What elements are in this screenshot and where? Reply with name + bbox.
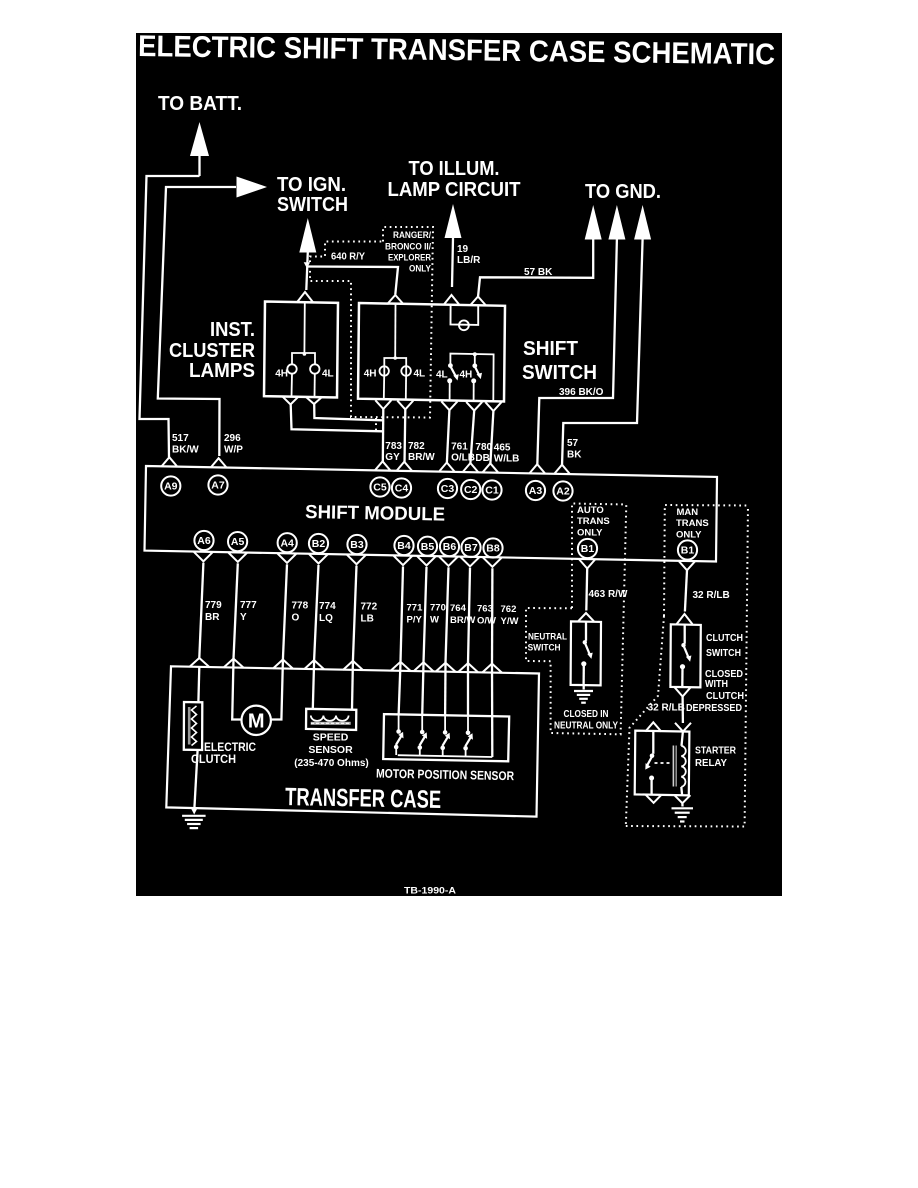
wire clutch switch to starter relay [681,697,684,724]
neutral switch box [571,621,601,685]
svg-text:A7: A7 [211,480,225,492]
wedge into starter relay (coil) [675,723,691,732]
svg-text:32 R/LB: 32 R/LB [648,703,685,714]
svg-text:BR/W: BR/W [408,452,435,463]
wire 774 LG (B2) [314,565,318,660]
svg-text:BK/W: BK/W [172,445,199,456]
module terminal C5 [375,461,391,470]
wire 763 O/W (B7) [468,568,470,663]
svg-text:SWITCH: SWITCH [522,362,597,384]
svg-text:A5: A5 [231,536,245,548]
wire to module C4 [403,409,406,463]
starter relay contact [652,731,654,753]
wire to module C3 [447,410,450,464]
wire B7 into position sensor switch 4 [467,664,469,717]
svg-text:C5: C5 [373,482,387,494]
junction arrowhead at case ground [190,807,198,814]
svg-text:TO GND.: TO GND. [585,181,661,203]
svg-text:771: 771 [407,602,424,613]
svg-text:NEUTRAL ONLY: NEUTRAL ONLY [554,721,618,732]
position sensor switch 2 [421,716,423,731]
electric clutch component [184,702,203,750]
svg-text:B2: B2 [312,538,326,550]
svg-text:LAMP CIRCUIT: LAMP CIRCUIT [388,179,521,201]
wedge into box2 (19 LB/R) [444,295,460,305]
wedge into box2 (640 R/Y) [387,295,403,304]
svg-text:MOTOR POSITION SENSOR: MOTOR POSITION SENSOR [376,767,514,784]
svg-text:P/Y: P/Y [407,614,423,625]
wedge below module B1 auto [579,559,595,568]
svg-text:C3: C3 [441,483,455,495]
svg-text:777: 777 [240,600,257,611]
wire A6 into electric clutch [197,667,200,702]
svg-text:517: 517 [172,433,189,444]
svg-text:LB: LB [361,614,374,625]
wire 762 Y/W (B8) [491,568,494,663]
svg-text:779: 779 [205,600,222,611]
module terminal B7 [461,538,480,557]
wire A4 to motor [271,661,283,720]
wire B2 to speed sensor [313,661,314,709]
wire 517 BK/W battery feed down left side [140,176,200,457]
svg-text:TO IGN.: TO IGN. [277,174,346,196]
wire from box1 4L lamp to module C5 [314,404,383,420]
svg-text:LB/R: LB/R [457,255,481,266]
svg-text:O/LB: O/LB [451,453,475,464]
module terminal C4 [396,462,412,471]
svg-text:761: 761 [451,442,468,453]
wire B4 into position sensor switch 1 [399,663,401,716]
starter relay coil [681,746,685,787]
wedge into case A4 [273,660,293,669]
module terminal A6 [194,531,213,550]
wedge below box1 lamp 4H [283,397,299,405]
wedge below starter relay contact [646,795,662,803]
illumination lamp symbol [459,320,469,330]
module terminal A2 [554,465,570,474]
module terminal B5 [418,537,437,556]
junction arrowhead on lamp feed [304,262,310,268]
selector switch frame [450,354,493,401]
ground (starter relay) [681,803,683,806]
svg-text:A6: A6 [197,535,211,547]
svg-text:TRANS: TRANS [676,518,709,529]
module terminal B1 (man) [678,540,697,559]
wire 778 O (A4) [283,564,287,659]
module terminal B1 (auto) [578,539,597,558]
wire 32 R/LB (clutch switch) [685,570,687,611]
svg-text:57 BK: 57 BK [524,267,553,278]
svg-text:W/LB: W/LB [494,454,520,465]
svg-text:4H: 4H [460,370,473,381]
wire 764 BR/W (B6) [446,567,449,662]
wire 296 W/P ignition feed [158,187,236,456]
wire to module C5 [382,409,385,463]
wedge below box2 lamp 4L wire (C4) [397,401,413,410]
wedge into starter relay (contact feed) [645,722,661,731]
lamp box1 output wires [291,374,294,397]
wedge into box2 (57 BK) [470,297,486,306]
svg-text:SWITCH: SWITCH [528,643,561,654]
module terminal C2 [462,463,478,472]
node TO IGN SWITCH arrow (lamps feed) [299,218,316,253]
svg-text:W: W [430,615,439,626]
wedge into case A5 [224,659,244,668]
illumination lamp sub-box [451,305,479,325]
module terminal A7 [211,458,227,467]
wedge into clutch switch [677,614,693,624]
svg-text:SHIFT: SHIFT [523,338,578,360]
wedge below B7 [461,557,480,566]
svg-text:A4: A4 [280,537,294,549]
svg-text:640 R/Y: 640 R/Y [331,252,365,263]
svg-text:BRONCO II/: BRONCO II/ [385,242,431,253]
wedge below B4 [394,556,413,565]
transfer case box [166,666,539,816]
svg-text:4L: 4L [414,369,426,380]
clutch switch contacts [684,625,686,644]
wedge below box2 4H switch (C2) [466,402,482,411]
wire 57 BK to shift switch [478,239,593,297]
dotted MAN TRANS ONLY enclosure sides [626,616,664,826]
wire 777 Y (A5) [234,563,238,658]
svg-text:TO BATT.: TO BATT. [158,93,242,115]
electric clutch winding [192,706,197,746]
svg-text:770: 770 [430,603,446,614]
dotted AUTO TRANS ONLY box [572,504,626,609]
lamp box 1 [264,302,338,398]
motor position sensor internal bus [398,755,493,757]
module terminal A3 [529,464,545,473]
wedge below A6 [194,552,213,561]
wedge into case A6 [189,658,209,667]
svg-text:774: 774 [319,601,336,612]
svg-text:296: 296 [224,433,241,444]
speed sensor box [306,709,356,730]
svg-text:B1: B1 [681,545,695,557]
box2 lamp feed [394,305,396,358]
svg-text:B3: B3 [350,539,364,551]
wedge into case B7 [458,663,478,672]
svg-text:M: M [248,711,265,733]
svg-text:4L: 4L [322,369,334,380]
wedge into neutral switch [578,613,594,621]
position sensor switch 1 [398,716,400,731]
svg-text:19: 19 [457,244,469,255]
svg-text:DB: DB [475,453,489,464]
svg-text:CLUSTER: CLUSTER [169,340,255,362]
svg-text:WITH: WITH [705,679,728,690]
svg-text:A9: A9 [164,481,178,493]
module terminal B4 [394,536,413,555]
wedge below box1 lamp 4L [306,397,322,404]
svg-text:CLUTCH: CLUTCH [706,632,743,644]
wire B8 into position sensor common [491,665,494,758]
svg-text:772: 772 [361,602,378,613]
svg-text:EXPLORER: EXPLORER [388,253,431,264]
switch 4H branch [474,354,476,364]
svg-text:A3: A3 [529,485,543,497]
svg-text:465: 465 [494,443,511,454]
svg-text:A2: A2 [556,486,570,498]
wedge into case B8 [482,664,502,673]
svg-text:B8: B8 [486,543,500,555]
position sensor switch 3 [444,716,446,731]
svg-text:CLOSED IN: CLOSED IN [564,709,609,720]
dotted MAN TRANS ONLY box [664,505,748,616]
wire 779 BR (A6) [199,563,203,658]
connector wedge into lamp box 1 [297,292,313,302]
wedge into case B6 [436,663,456,672]
wedge into case B5 [414,662,434,671]
svg-text:GY: GY [385,452,400,463]
module terminal A9 [161,457,177,466]
wire 770 W (B5) [424,567,427,662]
svg-text:BR: BR [205,612,220,623]
wedge into case B3 [343,661,363,670]
ground arrow 3 [634,205,651,240]
wedge below module B1 man [679,561,695,570]
clutch switch box [670,624,700,687]
wedge below B8 [483,557,502,566]
wire 640 R/Y branch to lamp box 2 [307,267,398,295]
lamp 4H (box1) [287,364,296,373]
position sensor switch 4 [467,717,469,732]
module terminal B6 [440,537,459,556]
svg-text:764: 764 [450,603,467,614]
svg-text:SPEED: SPEED [313,732,349,744]
wedge below B5 [417,556,436,565]
arrow to ignition switch (right) [237,177,268,198]
module terminal B3 [347,535,366,554]
wedge below B2 [309,554,328,563]
wire 771 P/Y (B4) [401,567,404,662]
svg-text:O: O [292,613,300,624]
svg-text:4H: 4H [275,369,288,380]
svg-text:SHIFT MODULE: SHIFT MODULE [305,502,445,526]
starter relay coil core [673,746,675,787]
wire coil bottom [680,787,683,795]
wedge below starter relay coil [674,795,690,803]
wire electric clutch to ground [194,750,197,810]
wire from box1 4H lamp to module C5 [291,405,383,432]
wedge below box2 common (C1) [485,402,501,411]
svg-text:ONLY: ONLY [409,264,432,275]
svg-text:ONLY: ONLY [577,528,603,539]
module terminal B8 [483,538,502,557]
motor M [242,706,271,735]
speed sensor core bar [311,722,351,725]
wedge below B6 [439,557,458,566]
svg-text:763: 763 [477,603,493,614]
svg-text:762: 762 [501,604,517,615]
svg-text:AUTO: AUTO [577,505,604,516]
svg-text:B6: B6 [443,541,457,553]
svg-text:ONLY: ONLY [676,530,702,541]
wire 396 BK/O from shift switch to module A3 [537,239,617,465]
svg-text:Y: Y [240,612,247,623]
wedge below A5 [228,553,247,562]
black scan background panel [136,33,782,896]
svg-text:W/P: W/P [224,445,243,456]
svg-text:DEPRESSED: DEPRESSED [686,703,742,714]
svg-text:780: 780 [475,442,492,453]
module terminal B2 [309,534,328,553]
svg-text:TB-1990-A: TB-1990-A [404,886,456,897]
svg-text:B7: B7 [464,542,478,554]
shift switch box 2 [358,303,505,402]
module terminal C1 [482,463,498,472]
wire to module C2 [470,411,474,465]
ground arrow 1 [585,205,602,240]
svg-text:LAMPS: LAMPS [189,360,255,382]
svg-text:B5: B5 [421,541,435,553]
svg-text:O/W: O/W [477,615,496,626]
svg-text:783: 783 [385,441,402,452]
svg-text:4L: 4L [436,370,448,381]
lamp 4L (box1) [310,364,319,373]
svg-text:396 BK/O: 396 BK/O [559,387,604,398]
module terminal A4 [278,533,297,552]
svg-text:STARTER: STARTER [695,745,736,757]
wedge below B3 [347,555,366,564]
lamp 4L (box2) [401,366,411,376]
svg-text:BK: BK [567,450,582,461]
svg-text:LQ: LQ [319,613,333,624]
starter relay box [635,731,690,796]
wedge below A4 [278,554,297,563]
svg-text:C2: C2 [464,484,478,496]
dotted outline RANGER/BRONCO II/EXPLORER ONLY region [310,227,433,418]
wire A5 to motor [232,659,241,719]
module terminal A5 [228,532,247,551]
wedge into case B4 [391,662,411,671]
svg-text:BR/W: BR/W [450,615,475,626]
module terminal C3 [439,463,455,472]
svg-text:RELAY: RELAY [695,757,727,769]
box2 lamp output wires [383,376,385,400]
wire B5 into position sensor switch 2 [422,663,423,716]
ground arrow 2 [608,205,625,240]
svg-text:MAN: MAN [677,507,699,518]
wedge below box2 4L switch (C3) [441,401,457,410]
svg-text:57: 57 [567,438,579,449]
svg-text:TRANS: TRANS [577,516,610,527]
wire 772 LB (B3) [353,566,357,661]
svg-text:B4: B4 [397,540,411,552]
wire B6 into position sensor switch 3 [444,664,447,717]
svg-text:C4: C4 [395,483,409,495]
svg-text:TO ILLUM.: TO ILLUM. [409,158,500,180]
svg-text:778: 778 [292,601,309,612]
svg-text:INST.: INST. [210,319,255,341]
ground (transfer case) [182,815,206,817]
svg-text:463 R/W: 463 R/W [589,589,628,600]
neutral switch contacts [585,622,587,641]
svg-text:SWITCH: SWITCH [277,194,348,216]
wedge below clutch switch [675,687,691,696]
starter relay mechanical link (dashed) [655,762,672,764]
wedge into case B2 [304,660,324,669]
svg-text:32 R/LB: 32 R/LB [693,590,730,601]
svg-text:TRANSFER CASE: TRANSFER CASE [285,783,442,814]
wire B3 to speed sensor [351,662,354,709]
wire 463 R/W [585,569,588,611]
switch 4L contact [448,363,453,368]
speed sensor winding [311,716,349,721]
wedge below box2 lamp 4H wire (C5) [375,400,391,409]
lamp 4H (box2) [380,366,389,375]
ground stub (neutral switch) [583,685,585,690]
arrow to illumination lamp circuit [445,204,462,238]
svg-text:782: 782 [408,441,425,452]
dotted NEUTRAL SWITCH label box and enclosure [526,505,626,735]
svg-text:(235-470 Ohms): (235-470 Ohms) [294,758,368,769]
wire 57 BK to module A2 [562,239,643,466]
arrow to battery [190,122,209,156]
svg-text:Y/W: Y/W [501,616,519,627]
wire coil top [682,732,683,746]
svg-text:C1: C1 [485,485,499,497]
dotted tail below ranger outline [375,418,377,431]
svg-text:B1: B1 [581,543,595,555]
shift module box [145,466,718,562]
svg-text:SWITCH: SWITCH [706,647,741,659]
lamp box1 internal feed wire [292,303,305,365]
svg-text:SENSOR: SENSOR [308,744,353,756]
wire to module C1 [490,411,493,465]
svg-text:NEUTRAL: NEUTRAL [528,632,567,643]
svg-text:RANGER/: RANGER/ [393,230,431,241]
ground (neutral switch) [574,690,593,692]
motor position sensor box [383,714,509,761]
svg-text:CLUTCH: CLUTCH [706,691,744,702]
svg-text:4H: 4H [364,369,377,380]
